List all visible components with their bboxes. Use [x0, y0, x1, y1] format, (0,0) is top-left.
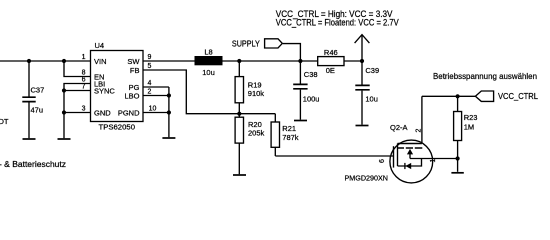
svg-text:SYNC: SYNC [94, 86, 115, 95]
node input junction at EN tap [62, 59, 66, 63]
pin name LBI [94, 79, 105, 88]
ground below C38 [294, 120, 307, 122]
wire LBI rail [64, 84, 91, 139]
label R19 [248, 80, 262, 89]
transistor Q2-A PMGD290XN [390, 140, 433, 183]
svg-text:100u: 100u [303, 95, 320, 104]
svg-text:10u: 10u [365, 95, 378, 104]
svg-text:47u: 47u [31, 106, 44, 115]
svg-text:U4: U4 [95, 41, 105, 50]
pin number 5 [147, 63, 151, 70]
label R23 [464, 113, 478, 122]
value 47u [31, 106, 44, 115]
annotation VCC_CTRL = Floatend [276, 17, 399, 27]
wire gate net R21 to Q2 [275, 155, 393, 157]
label L8 [204, 47, 212, 56]
resistor R19 [235, 61, 243, 114]
IC U4 TPS62050 body [91, 51, 144, 122]
svg-text:FB: FB [130, 66, 140, 75]
pin name FB [130, 66, 140, 75]
svg-text:C38: C38 [304, 70, 318, 79]
annotation VCC_CTRL = High [276, 9, 393, 19]
node PGND junction [167, 110, 171, 114]
resistor R20 [235, 114, 243, 175]
wire EN jumper [64, 61, 91, 77]
label PMGD290XN [345, 174, 389, 183]
svg-text:1: 1 [430, 158, 437, 162]
node input junction at C37 [27, 59, 31, 63]
svg-text:3: 3 [82, 106, 86, 113]
label U4 [95, 41, 105, 50]
body diode cathode bar [404, 163, 406, 169]
ground below R20 [233, 174, 246, 176]
node LBO junction [167, 93, 171, 97]
label VCC_CTRL [498, 91, 538, 101]
wire VCC_CTRL top net [422, 95, 476, 97]
node GND junction [62, 110, 66, 114]
node source/R23 junction [456, 156, 460, 160]
wire L8 to R46 [223, 60, 318, 62]
svg-text:R46: R46 [324, 48, 338, 57]
svg-text:C37: C37 [31, 85, 45, 94]
svg-text:6: 6 [82, 77, 86, 84]
value 100u [303, 95, 320, 104]
wire PG/LBO/PGND rail [168, 87, 170, 137]
wire source out [433, 158, 458, 160]
label TPS62050 [99, 123, 136, 132]
value 910k [248, 89, 265, 98]
body diode triangle [405, 163, 411, 169]
node SW net at R19 [237, 59, 241, 63]
svg-text:R21: R21 [282, 124, 296, 133]
pin number 1 [82, 54, 86, 61]
wire PG stub [143, 86, 169, 88]
pin number 7 [82, 84, 86, 91]
svg-text:2: 2 [415, 128, 422, 132]
label R46 [324, 48, 338, 57]
annotation Betriebsspannung [433, 71, 537, 81]
capacitor C37 [22, 61, 35, 138]
label R20 [248, 120, 262, 129]
flag VCC_CTRL [475, 91, 493, 101]
power VCC arrow [355, 35, 370, 61]
value 205k [248, 128, 265, 137]
wire VIN input rail [0, 60, 91, 62]
pin name EN [94, 72, 104, 81]
bulk arrow stem [409, 154, 411, 159]
svg-text:5: 5 [147, 63, 151, 70]
channel dashes [398, 147, 423, 149]
svg-text:Q2-A: Q2-A [390, 123, 408, 132]
svg-text:SUPPLY: SUPPLY [232, 39, 260, 49]
svg-text:LBO: LBO [124, 91, 139, 100]
node SW net at SUPPLY/C38 [298, 59, 302, 63]
pin name LBO [124, 91, 139, 100]
svg-text:R23: R23 [464, 113, 478, 122]
pin number 4 [147, 80, 151, 87]
bulk arrow head [407, 149, 413, 155]
svg-text:TPS62050: TPS62050 [99, 123, 136, 132]
wire SYNC stub [64, 90, 91, 92]
svg-text:2: 2 [147, 89, 151, 96]
value 787k [282, 133, 299, 142]
svg-text:GND: GND [94, 108, 111, 117]
capacitor C39 [355, 61, 369, 125]
svg-text:VIN: VIN [94, 57, 107, 66]
pin number 2 rotated [415, 128, 422, 132]
node R23 top junction [456, 94, 460, 98]
node VCC/C39 junction [360, 59, 364, 63]
svg-text:0E: 0E [326, 66, 335, 75]
value 10u [365, 95, 378, 104]
gate bar [393, 146, 395, 167]
ground below LBI/SYNC/GND rail [58, 138, 71, 140]
label SUPPLY [232, 39, 260, 49]
node SYNC junction [62, 88, 66, 92]
ground below PGND rail [162, 137, 175, 139]
value 10u [202, 68, 215, 77]
capacitor C38 [293, 61, 307, 120]
value 1M [464, 123, 474, 132]
label R21 [282, 124, 296, 133]
svg-text:9: 9 [147, 54, 151, 61]
wire drain net [421, 96, 423, 143]
pin number 6 rotated [379, 159, 386, 163]
svg-text:Betriebsspannung auswählen: Betriebsspannung auswählen [433, 71, 537, 81]
resistor R21 [271, 114, 279, 156]
ground below C39 [356, 125, 369, 127]
node FB divider junction [237, 112, 241, 116]
svg-text:L8: L8 [204, 47, 212, 56]
pin name VIN [94, 57, 107, 66]
annotation Batterieschutz [0, 160, 66, 169]
resistor R23 [454, 96, 462, 158]
wire source to ground [457, 159, 459, 172]
svg-text:C39: C39 [365, 66, 379, 75]
label Q2-A [390, 123, 408, 132]
pin name GND [94, 108, 111, 117]
svg-text:7: 7 [82, 84, 86, 91]
svg-text:- & Batterieschutz: - & Batterieschutz [0, 160, 66, 169]
flag SUPPLY [265, 39, 283, 48]
drain bar [398, 143, 422, 145]
annotation DT fragment [0, 117, 9, 126]
body diode loop [398, 159, 422, 167]
label C37 [31, 85, 45, 94]
resistor R46 [318, 57, 344, 66]
source line [410, 158, 433, 160]
svg-text:DT: DT [0, 117, 9, 126]
label C39 [365, 66, 379, 75]
svg-text:8: 8 [82, 70, 86, 77]
wire R46 to C39 [344, 60, 362, 62]
pin number 3 [82, 106, 86, 113]
svg-text:910k: 910k [248, 89, 265, 98]
svg-text:SW: SW [127, 57, 140, 66]
svg-text:1M: 1M [464, 123, 474, 132]
value 0E [326, 66, 335, 75]
label C38 [304, 70, 318, 79]
ground below Q2 source [451, 172, 463, 174]
pin number 8 [82, 70, 86, 77]
pin name SW [127, 57, 140, 66]
svg-text:PGND: PGND [118, 108, 140, 117]
wire LBO stub [143, 95, 169, 97]
pin number 6 [82, 77, 86, 84]
svg-text:10u: 10u [202, 68, 215, 77]
svg-text:VCC_CTRL: VCC_CTRL [498, 91, 538, 101]
svg-text:VCC_CTRL = Floatend: VCC = 2.7: VCC_CTRL = Floatend: VCC = 2.7V [276, 17, 399, 27]
svg-text:787k: 787k [282, 133, 299, 142]
wire FB feedback net [143, 70, 275, 114]
ground below C37 [23, 138, 36, 140]
svg-text:6: 6 [379, 159, 386, 163]
svg-text:4: 4 [147, 80, 151, 87]
inductor L8 [195, 56, 223, 65]
svg-text:205k: 205k [248, 128, 265, 137]
drain-side drop [397, 144, 399, 167]
svg-text:10: 10 [149, 106, 157, 113]
wire SUPPLY flag to rail [283, 44, 301, 61]
svg-text:PMGD290XN: PMGD290XN [345, 174, 389, 183]
wire PGND stub [143, 112, 169, 114]
wire SW to L8 [143, 60, 195, 62]
svg-text:1: 1 [82, 54, 86, 61]
pin name PG [129, 83, 140, 92]
wire GND stub [64, 112, 91, 114]
pin number 2 [147, 89, 151, 96]
pin number 9 [147, 54, 151, 61]
pin number 1 rotated [430, 158, 437, 162]
pin name SYNC [94, 86, 115, 95]
pin number 10 [149, 106, 157, 113]
pin name PGND [118, 108, 140, 117]
